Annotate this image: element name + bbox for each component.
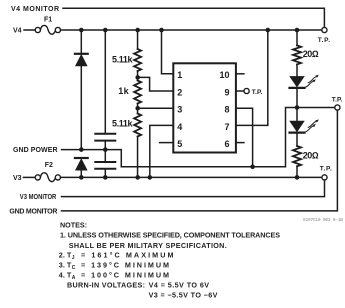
svg-text:4: 4 [177,122,182,132]
node junction dots resistor column [135,75,140,80]
diode CR2 (V3 clamp) [75,158,88,170]
wire R1 to node [137,71,139,81]
svg-text:8107C10 003 0-1B: 8107C10 003 0-1B [303,217,343,223]
svg-text:T.P.: T.P. [252,89,263,96]
svg-text:2: 2 [177,87,182,97]
svg-text:3. T: 3. T [59,261,72,270]
svg-text:4. T: 4. T [59,271,72,280]
node T.P. pin9 test point [244,88,249,93]
node junction dot LED mid rail [295,105,300,110]
svg-text:5: 5 [177,139,182,149]
wire V3 MONITOR line [62,181,325,197]
svg-text:V3 = −5.5V TO −6V: V3 = −5.5V TO −6V [149,291,218,300]
svg-text:T.P.: T.P. [332,96,343,103]
wire diode column to GND POWER [80,66,82,150]
svg-text:5.11k: 5.11k [112,54,133,64]
LED DS1 [290,75,319,88]
svg-text:BURN-IN VOLTAGES:: BURN-IN VOLTAGES: [67,281,145,290]
node junction dot pin8 gnd jumper [250,165,255,170]
wire pin5 stub NC [160,142,174,144]
capacitor C1 [95,134,115,141]
wire pin4 to V3 rail [150,125,174,177]
svg-text:20Ω: 20Ω [303,49,319,59]
wire pin8 to gnd jumper [236,108,253,167]
svg-text:1. UNLESS OTHERWISE SPECIFIED,: 1. UNLESS OTHERWISE SPECIFIED, COMPONENT… [60,231,280,240]
wire diode column from V4 rail [80,30,82,53]
svg-text:F2: F2 [45,162,53,169]
fuse F2 [35,173,60,182]
svg-text:T.P.: T.P. [318,37,330,44]
svg-text:20Ω: 20Ω [303,150,319,160]
wire C2 to V3 rail [104,170,106,178]
svg-text:1: 1 [177,70,182,80]
wire pin6 stub NC [236,142,244,144]
svg-text:5.11k: 5.11k [112,119,133,129]
wire pin9 to test point [236,90,244,92]
wire V3 lead to fuse [24,176,36,178]
node T.P. V4 monitor test point [322,27,327,32]
svg-text:V4 MONITOR: V4 MONITOR [11,6,59,13]
svg-text:GND MONITOR: GND MONITOR [9,209,57,216]
wire diode column to V3 rail [80,170,82,177]
wire gnd jumper to LED mid rail [121,108,334,167]
svg-text:1k: 1k [118,86,129,96]
svg-text:NOTES:: NOTES: [60,221,87,230]
resistor R4 20ohm [293,45,301,64]
node T.P. gnd test point [335,105,340,110]
wire pin1 to V4 rail [162,30,174,74]
wire R3 to V3 rail [137,137,139,178]
node junction dots V4 rail [79,28,84,33]
svg-text:V3: V3 [13,175,22,182]
svg-text:7: 7 [224,122,229,132]
wire capacitor column from V4 rail [104,30,106,133]
node T.P. V3 test point [322,175,327,180]
svg-text:J: J [72,255,75,261]
wire LED1 branch from V4 rail [296,30,298,45]
LED DS2 [290,120,319,133]
node junction dots GND POWER [79,147,84,152]
svg-text:= 161°C MAXIMUM: = 161°C MAXIMUM [81,251,174,260]
wire resistor column top [137,30,139,49]
wire mid rail to LED2 [296,108,298,122]
svg-text:F1: F1 [44,16,52,23]
wire GND POWER line [62,150,122,167]
wire R4 to LED1 [296,64,298,76]
wire LED1 to mid rail [296,89,298,108]
svg-text:3: 3 [177,105,182,115]
op-amp U1 DIP package [173,63,236,152]
svg-text:V4: V4 [13,28,22,35]
wire pin10 stub NC [236,73,244,75]
wire pin7 to V4 rail [236,30,268,125]
capacitor C2 [95,162,115,169]
svg-text:V3 MONITOR: V3 MONITOR [20,194,57,201]
svg-text:= 139°C MINIMUM: = 139°C MINIMUM [81,261,169,270]
svg-text:9: 9 [224,87,229,97]
svg-text:SHALL BE PER MILITARY SPECIFIC: SHALL BE PER MILITARY SPECIFICATION. [69,241,227,250]
wire pin3 to R2/R3 node [138,107,174,109]
wire V4 rail [61,29,322,31]
svg-text:2. T: 2. T [59,251,72,260]
wire R5 to V3 rail [296,166,298,177]
resistor R1 5.11k [134,49,141,71]
diode CR1 (V4 clamp) [75,54,88,66]
wire GND POWER to C2 [104,150,106,161]
svg-text:C: C [72,265,76,271]
wire GND MONITOR line [62,111,338,211]
svg-text:8: 8 [224,105,229,115]
resistor R3 5.11k [134,114,141,137]
svg-text:= 100°C MINIMUM: = 100°C MINIMUM [81,271,169,280]
wire V4 lead to fuse [24,29,35,31]
resistor R5 20ohm [293,146,301,166]
resistor R2 1k [134,81,141,104]
notes text [59,221,280,300]
wire LED2 to R5 [296,134,298,146]
svg-text:6: 6 [224,139,229,149]
svg-text:V4 = 5.5V TO 6V: V4 = 5.5V TO 6V [149,281,210,290]
svg-text:T.P.: T.P. [320,166,332,173]
wire pin2 to R1/R2 node [138,77,174,91]
svg-text:10: 10 [219,70,229,80]
node junction dots V3 rail [79,175,84,180]
wire R2 to node [137,104,139,114]
wire V3 rail [61,176,322,178]
fuse F1 [35,25,60,34]
wire V4 MONITOR line [63,8,324,27]
svg-text:GND POWER: GND POWER [13,147,58,154]
wire C1 to GND POWER [104,142,106,150]
